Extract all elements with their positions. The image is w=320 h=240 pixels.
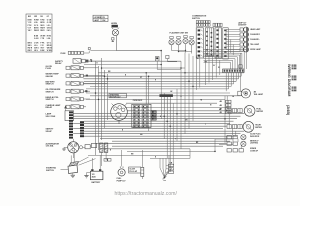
label above lamp stack: [238, 22, 247, 27]
svg-text:LW L: LW L: [47, 30, 51, 32]
label: combination switch: [192, 15, 207, 20]
lower horizontal wires group: [88, 149, 215, 159]
vertical wires: left riser group: [96, 58, 108, 155]
thermo label box: [129, 167, 141, 173]
switch block B grid: [205, 28, 213, 56]
svg-text:W WH: W WH: [47, 50, 53, 52]
svg-text:SWITCH: SWITCH: [46, 84, 54, 86]
svg-text:L: L: [205, 123, 206, 125]
wires: staircase from switch block to lamp connector strip: [204, 50, 247, 69]
hour meter gauge: [243, 121, 262, 132]
vertical stubs linking lamp rows to staircase: [226, 30, 233, 56]
vertical text sheet number: [286, 105, 290, 116]
lamp 3: FLASHER L: [240, 37, 260, 42]
vertical resistor component 2: [104, 143, 107, 160]
label box: starting motor: [109, 93, 126, 98]
svg-text:WIRING DIAGRAM: WIRING DIAGRAM: [287, 64, 291, 96]
battery: [90, 155, 103, 183]
switch block C: [215, 28, 222, 58]
glow plug row: [46, 66, 99, 70]
svg-text:SWITCH: SWITCH: [46, 170, 54, 172]
svg-text:WORK LAMP: WORK LAMP: [250, 48, 261, 51]
svg-text:https://tractormanualz.com/: https://tractormanualz.com/: [115, 191, 178, 197]
svg-text:BW: BW: [28, 16, 31, 18]
junction dot at horn wire: [160, 50, 162, 57]
junction dots on lattice: [95, 64, 226, 152]
svg-text:WB W: WB W: [34, 30, 39, 32]
fuel meter gauge: [244, 105, 263, 116]
fusible link row: [61, 48, 117, 55]
safety relay components: [73, 59, 102, 64]
svg-text:10W: 10W: [102, 20, 106, 22]
bottom right connector row: [227, 147, 259, 152]
comb connector bar (dark header): [160, 95, 173, 120]
battery connector boxes upper right: [104, 159, 111, 162]
svg-text:L BL: L BL: [47, 38, 51, 40]
small relay box left under horn wire: [155, 57, 181, 70]
wire to lamp 1: [226, 30, 240, 32]
label: safety relay: [55, 60, 64, 65]
earth arrow above ladder: [64, 105, 67, 111]
wires: below terminal strip turning left into bus: [226, 73, 241, 92]
combination row 6: [46, 104, 87, 109]
vertical wires: center lattice: [161, 53, 240, 173]
label: alternator: [46, 142, 60, 147]
svg-text:TAIL LAMP: TAIL LAMP: [250, 43, 260, 46]
main bus: dense band horizontal wires: [73, 114, 244, 147]
small connector cluster right-center with labels: [220, 100, 232, 114]
left small connector stack near comb: [151, 111, 156, 121]
svg-text:GY: GY: [140, 77, 142, 79]
svg-text:METER: METER: [255, 127, 262, 129]
svg-text:45Ah: 45Ah: [92, 176, 96, 179]
lamp 4: TAIL LAMP: [240, 42, 260, 47]
svg-text:(2/4B): (2/4B): [286, 105, 290, 116]
tail lamp gauge row: [238, 89, 264, 98]
terminal strip (dark bar): [223, 69, 245, 73]
vertical stubs on right linking bus to gauge rows: [227, 91, 244, 148]
svg-text:BATTERY: BATTERY: [92, 181, 101, 184]
svg-text:LW L: LW L: [34, 50, 38, 52]
svg-text:PLUG: PLUG: [46, 68, 52, 70]
small diode box under flasher row: [166, 55, 177, 61]
starting switch ground: [71, 174, 75, 178]
svg-text:PUMP 12V: PUMP 12V: [117, 180, 127, 182]
regulator label near ladder: [46, 128, 55, 133]
wire to lamp 5: [226, 50, 240, 52]
svg-text:SWITCH: SWITCH: [46, 91, 54, 93]
connector strip row B: [213, 23, 222, 26]
fuel meter row connectors: [227, 109, 242, 113]
connector ladder column A: [65, 111, 74, 139]
svg-text:FLASHER L: FLASHER L: [250, 38, 259, 41]
flasher lower cross-links: [172, 50, 192, 52]
battery ground wire and earth: [84, 173, 90, 178]
starting switch riser wires: [71, 151, 95, 165]
horn connector (dark): [112, 25, 118, 28]
svg-text:FUSE: FUSE: [61, 53, 67, 55]
svg-text:HEAD LAMP: HEAD LAMP: [250, 28, 261, 31]
vertical resistor component 1: [100, 143, 103, 166]
svg-text:FUSE BOX: FUSE BOX: [133, 100, 143, 102]
alternator circle: [68, 139, 79, 158]
lighting switch row: [227, 140, 259, 146]
flasher switch symbol 2: [176, 36, 181, 51]
svg-text:35/35W 8P: 35/35W 8P: [238, 25, 247, 27]
kanji title vertical (stylized blocks): [292, 65, 297, 92]
regulator boxes right of alternator: [79, 143, 97, 149]
svg-text:INDICATOR: INDICATOR: [250, 135, 260, 138]
horn symbol circle: [112, 28, 119, 36]
vertical text WIRING DIAGRAM: [287, 64, 291, 96]
tall contact box D: [223, 28, 228, 59]
wire to lamp 2: [226, 35, 240, 37]
wire: horn down and right to junction: [116, 36, 161, 51]
bottom right corner turns: [215, 139, 233, 145]
ground cluster diagonals to earth point: [160, 168, 172, 181]
connector strip row A: [196, 21, 210, 27]
label: flasher unit: [170, 32, 189, 35]
svg-text:PLUG 4P: PLUG 4P: [129, 170, 137, 173]
main bus: top group horizontal wires: [83, 73, 244, 89]
legend: wire color code table frame: [26, 14, 52, 52]
connector block A with contacts: [196, 28, 203, 58]
svg-text:RY: RY: [152, 112, 154, 114]
svg-text:FLASHER R: FLASHER R: [250, 33, 260, 36]
glow indicator row: [227, 134, 261, 140]
wire to lamp 4: [226, 45, 240, 47]
label: fuse box: [133, 100, 143, 102]
starting motor circle: [111, 104, 128, 124]
wires: upper feeder lines from relay rows: [84, 61, 185, 68]
svg-text:LAMP: LAMP: [94, 19, 100, 22]
flasher switch symbol 3: [183, 35, 188, 52]
flasher switch symbol 1: [169, 36, 174, 50]
ground cluster verticals: [160, 155, 169, 169]
horn ground stub: [112, 38, 114, 42]
main bus: middle group horizontal wires: [86, 93, 241, 111]
svg-text:TAIL LAMP: TAIL LAMP: [254, 93, 264, 96]
vertical wires: center risers to fuse box: [146, 73, 148, 131]
earth symbol left of alternator: [62, 147, 67, 150]
lamp 1: HEAD LAMP: [240, 27, 261, 32]
oil pressure switch row: [46, 89, 91, 93]
label: lamp switch connector: [46, 113, 56, 118]
legend color code entries: [28, 20, 53, 52]
wire color tag texts along wires: [90, 59, 235, 158]
starting switch body: [61, 161, 79, 173]
watermark url text: [115, 191, 178, 197]
svg-text:SWITCH: SWITCH: [192, 18, 200, 20]
tiny wire tag texts near staircase: [197, 58, 217, 67]
svg-text:MOTOR 12V: MOTOR 12V: [110, 97, 121, 99]
water temp gauge row: [46, 73, 105, 78]
lamp 5: WORK LAMP: [240, 47, 262, 52]
svg-text:SW 4P: SW 4P: [46, 130, 53, 133]
lamp 2: FLASHER R: [240, 32, 261, 37]
svg-text:12V 40A: 12V 40A: [46, 145, 54, 148]
legend header row: [28, 16, 50, 18]
wire to lamp 3: [226, 40, 240, 42]
battery switch row: [46, 80, 108, 85]
fuse box grid: [132, 104, 151, 127]
horn label: [111, 23, 117, 25]
flasher switch symbol 4: [189, 36, 194, 53]
hour meter row connectors: [227, 125, 242, 129]
CB boxes near ground cluster: [166, 163, 174, 174]
label box: license lamp: [93, 15, 108, 22]
svg-text:RELAY: RELAY: [55, 62, 62, 65]
inline fuse component bottom: [141, 150, 144, 179]
label: starting switch: [46, 167, 57, 172]
svg-text:GAUGE: GAUGE: [46, 75, 54, 78]
svg-text:METER: METER: [256, 111, 263, 113]
svg-text:SWITCH: SWITCH: [46, 99, 54, 101]
svg-text:RELAY: RELAY: [46, 106, 53, 109]
svg-text:FLASHER UNIT SW: FLASHER UNIT SW: [170, 32, 189, 35]
connector ladder column B: [80, 121, 84, 137]
fuel pump: [117, 150, 127, 182]
heater relay row: [46, 96, 91, 101]
svg-text:SW CONN: SW CONN: [46, 116, 56, 118]
connector box on vertical wire x240: [239, 65, 242, 68]
svg-text:Y: Y: [175, 138, 176, 140]
svg-text:LIGHTING: LIGHTING: [250, 143, 259, 145]
svg-text:CONN 2P: CONN 2P: [250, 150, 259, 152]
